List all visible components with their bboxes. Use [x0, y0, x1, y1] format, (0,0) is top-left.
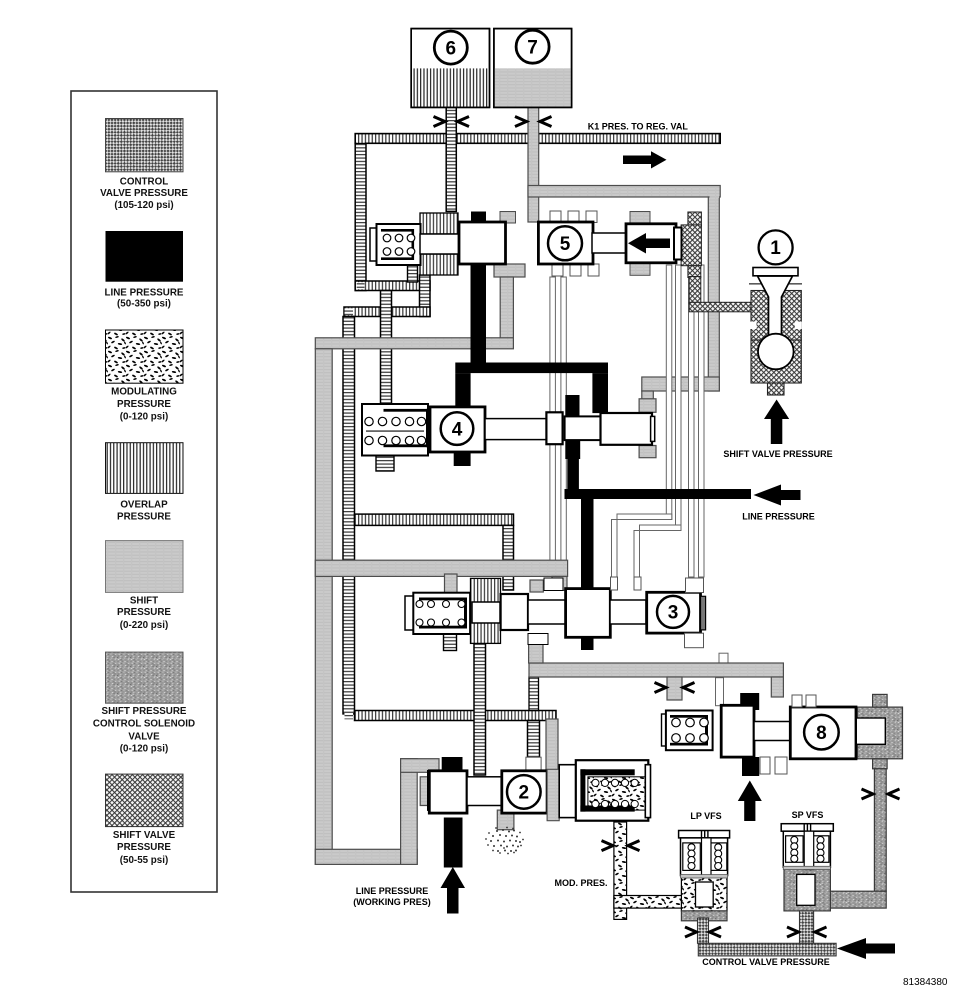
svg-text:(0-220 psi): (0-220 psi) — [120, 620, 168, 631]
svg-text:SP VFS: SP VFS — [792, 810, 824, 820]
svg-text:1: 1 — [770, 238, 781, 259]
svg-text:5: 5 — [560, 234, 571, 255]
svg-text:VALVE: VALVE — [128, 732, 160, 743]
svg-text:SHIFT: SHIFT — [130, 596, 158, 607]
svg-text:PRESSURE: PRESSURE — [117, 399, 171, 410]
svg-text:6: 6 — [446, 38, 457, 59]
svg-text:VALVE PRESSURE: VALVE PRESSURE — [100, 188, 188, 199]
svg-text:PRESSURE: PRESSURE — [117, 842, 171, 853]
svg-text:(50-55 psi): (50-55 psi) — [120, 855, 168, 866]
svg-text:4: 4 — [452, 419, 463, 440]
svg-text:LINE PRESSURE: LINE PRESSURE — [356, 886, 429, 896]
svg-text:SHIFT VALVE PRESSURE: SHIFT VALVE PRESSURE — [723, 449, 832, 459]
svg-text:MODULATING: MODULATING — [111, 387, 177, 398]
svg-text:(0-120 psi): (0-120 psi) — [120, 412, 168, 423]
svg-text:K1 PRES. TO REG. VAL: K1 PRES. TO REG. VAL — [588, 121, 689, 131]
svg-text:LINE PRESSURE: LINE PRESSURE — [105, 288, 184, 299]
svg-text:LP VFS: LP VFS — [690, 811, 721, 821]
svg-text:SHIFT PRESSURE: SHIFT PRESSURE — [102, 706, 187, 717]
svg-text:81384380: 81384380 — [903, 977, 948, 988]
svg-text:3: 3 — [668, 603, 679, 624]
svg-text:SHIFT VALVE: SHIFT VALVE — [113, 830, 176, 841]
svg-text:7: 7 — [527, 37, 538, 58]
svg-text:PRESSURE: PRESSURE — [117, 607, 171, 618]
svg-text:OVERLAP: OVERLAP — [120, 500, 168, 511]
svg-text:PRESSURE: PRESSURE — [117, 512, 171, 523]
svg-text:(0-120 psi): (0-120 psi) — [120, 744, 168, 755]
svg-text:2: 2 — [519, 783, 530, 804]
svg-text:8: 8 — [816, 723, 827, 744]
svg-text:(50-350 psi): (50-350 psi) — [117, 299, 171, 310]
svg-text:CONTROL: CONTROL — [120, 177, 168, 188]
svg-text:LINE PRESSURE: LINE PRESSURE — [742, 512, 815, 522]
svg-text:CONTROL SOLENOID: CONTROL SOLENOID — [93, 719, 195, 730]
svg-text:(105-120 psi): (105-120 psi) — [114, 200, 173, 211]
svg-text:(WORKING PRES): (WORKING PRES) — [353, 897, 431, 907]
svg-text:MOD. PRES.: MOD. PRES. — [554, 878, 607, 888]
svg-text:CONTROL VALVE PRESSURE: CONTROL VALVE PRESSURE — [702, 957, 830, 967]
